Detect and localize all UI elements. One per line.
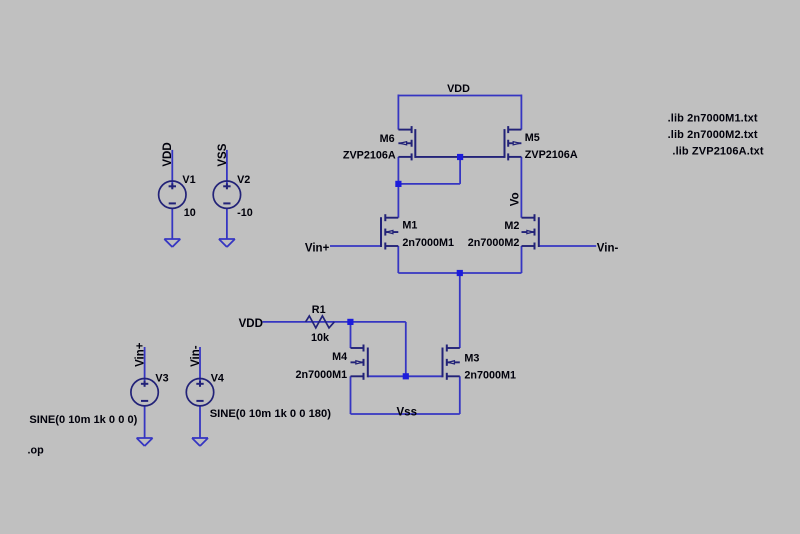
svg-text:M4: M4 bbox=[332, 351, 347, 363]
svg-text:Vin+: Vin+ bbox=[134, 342, 146, 367]
svg-text:V1: V1 bbox=[182, 174, 195, 186]
svg-text:.lib 2n7000M1.txt: .lib 2n7000M1.txt bbox=[668, 113, 758, 125]
svg-text:SINE(0 10m 1k 0 0 0): SINE(0 10m 1k 0 0 0) bbox=[29, 414, 137, 426]
svg-text:M1: M1 bbox=[402, 220, 417, 232]
svg-text:Vo: Vo bbox=[510, 192, 522, 206]
svg-text:10: 10 bbox=[184, 207, 196, 219]
svg-text:Vin+: Vin+ bbox=[305, 243, 330, 255]
svg-text:V2: V2 bbox=[237, 174, 250, 186]
svg-text:M5: M5 bbox=[525, 132, 540, 144]
svg-text:Vss: Vss bbox=[397, 407, 417, 419]
svg-text:VDD: VDD bbox=[162, 142, 174, 166]
svg-text:2n7000M2: 2n7000M2 bbox=[468, 237, 520, 249]
svg-text:-10: -10 bbox=[237, 207, 253, 219]
svg-text:V3: V3 bbox=[155, 372, 168, 384]
svg-text:2n7000M1: 2n7000M1 bbox=[464, 370, 516, 382]
svg-text:R1: R1 bbox=[312, 304, 326, 316]
svg-text:2n7000M1: 2n7000M1 bbox=[295, 369, 347, 381]
svg-text:ZVP2106A: ZVP2106A bbox=[343, 149, 396, 161]
svg-text:Vin-: Vin- bbox=[597, 242, 619, 254]
svg-text:.op: .op bbox=[28, 445, 45, 457]
svg-text:VDD: VDD bbox=[447, 83, 470, 95]
svg-text:Vin-: Vin- bbox=[190, 345, 202, 367]
svg-text:M3: M3 bbox=[464, 353, 479, 365]
svg-text:.lib 2n7000M2.txt: .lib 2n7000M2.txt bbox=[668, 129, 758, 141]
svg-text:M2: M2 bbox=[504, 220, 519, 232]
svg-text:VDD: VDD bbox=[239, 318, 263, 330]
svg-text:.lib ZVP2106A.txt: .lib ZVP2106A.txt bbox=[672, 146, 764, 158]
svg-text:ZVP2106A: ZVP2106A bbox=[525, 149, 578, 161]
svg-text:10k: 10k bbox=[311, 332, 330, 344]
svg-text:VSS: VSS bbox=[217, 143, 229, 166]
svg-text:V4: V4 bbox=[211, 372, 224, 384]
svg-text:SINE(0 10m 1k 0 0 180): SINE(0 10m 1k 0 0 180) bbox=[210, 408, 332, 420]
svg-text:2n7000M1: 2n7000M1 bbox=[402, 237, 454, 249]
svg-text:M6: M6 bbox=[380, 133, 395, 145]
